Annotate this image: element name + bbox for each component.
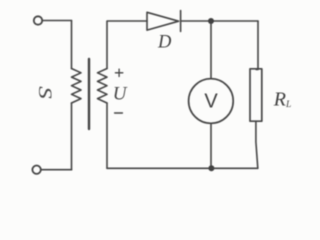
svg-text:U: U	[113, 84, 128, 105]
wire right branch lower	[256, 121, 258, 168]
svg-text:V: V	[204, 91, 218, 113]
wire right branch upper	[256, 21, 258, 70]
svg-text:D: D	[157, 33, 172, 53]
diode cathode bar	[180, 11, 182, 32]
wire primary lower lead	[71, 103, 73, 170]
terminal top-left	[34, 16, 42, 24]
resistor RL	[250, 69, 262, 121]
wire secondary lower lead	[106, 103, 108, 168]
wire bottom secondary	[107, 167, 258, 169]
transformer secondary winding	[98, 69, 108, 104]
node junction top	[208, 18, 214, 24]
wire top right of diode	[181, 20, 258, 22]
wire secondary upper lead	[107, 21, 147, 69]
wire primary upper lead	[71, 21, 73, 69]
label - polarity	[115, 112, 123, 114]
wire voltmeter lower lead	[210, 123, 212, 168]
diode D	[147, 12, 179, 30]
wire voltmeter upper lead	[210, 21, 212, 79]
label + polarity	[115, 69, 122, 76]
wire top-left horizontal	[42, 20, 71, 22]
svg-text:S: S	[35, 86, 56, 99]
transformer primary winding	[72, 69, 82, 104]
svg-text:RL: RL	[273, 89, 292, 111]
voltmeter V (meter)	[189, 79, 234, 124]
wire bottom-left horizontal	[41, 169, 72, 171]
terminal bottom-left	[32, 166, 40, 174]
node junction bottom	[208, 165, 214, 171]
transformer core	[88, 59, 90, 129]
